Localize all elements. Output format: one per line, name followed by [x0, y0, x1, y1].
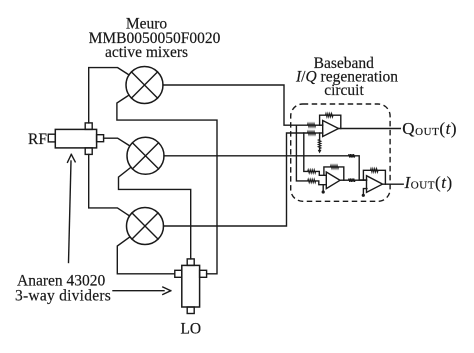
svg-text:RF: RF	[28, 131, 47, 148]
ground arrow under U3	[362, 194, 365, 197]
wire RF divider top to mixer M1	[89, 68, 129, 123]
wire mixer M1 LO input to LO divider right port	[117, 95, 217, 274]
resistor R4 (row4)	[308, 170, 316, 173]
wire row5 jog into U2	[316, 181, 327, 185]
wire row2 resistor to U1 input	[316, 132, 323, 134]
annotation arrow to RF divider	[69, 161, 72, 263]
RF divider bottom port tab	[85, 148, 92, 155]
LO divider bottom port tab	[187, 307, 194, 314]
mixer M2 circle	[127, 137, 164, 174]
mixer M1 circle	[126, 67, 163, 104]
mixer M3 X multiplier cross	[132, 213, 158, 239]
svg-text:active mixers: active mixers	[105, 44, 188, 61]
wire mixer M2 LO input to LO divider top port	[119, 167, 191, 259]
ground arrow under U2	[322, 190, 325, 193]
op-amp U2 (I channel first stage)	[326, 172, 340, 189]
resistor RF2 (U2 feedback)	[331, 165, 339, 168]
LO 3-way divider body	[182, 265, 200, 307]
wire U3 feedback loop	[363, 170, 385, 184]
wire row3 drop to U3 input	[355, 156, 367, 180]
wire mixer M3 LO input to LO divider left port	[117, 237, 175, 274]
svg-text:LO: LO	[180, 320, 201, 337]
wire R6 to U3 input	[355, 179, 367, 181]
resistor R1 (row1 input to U1)	[308, 124, 316, 127]
resistor R5 (row5)	[308, 179, 316, 182]
mixer M1 X multiplier cross	[131, 72, 157, 98]
LO divider right port tab	[200, 270, 207, 277]
wire vertical node B (row2 down to row4)	[304, 133, 308, 171]
wire row4 jog into U2	[316, 171, 327, 175]
resistor R7 on mixer M2 line	[349, 154, 355, 157]
resistor R2 (row2 input to U1)	[308, 131, 316, 134]
wire row1 resistor to U1 input	[316, 124, 323, 126]
op-amp U1 (Q channel)	[323, 121, 339, 137]
wire RF divider bottom to mixer M3	[89, 154, 130, 216]
wire U2 feedback loop	[324, 167, 344, 180]
mixer M3 circle	[127, 208, 164, 245]
LO divider left port tab	[175, 270, 182, 277]
wire RG1 to ground arrow	[319, 149, 321, 151]
wire mixer M3 output to baseband row2	[164, 133, 308, 226]
wire vertical node A (row1 down to row5)	[296, 125, 307, 181]
wire U2 ground stub	[322, 185, 324, 191]
ground arrow under U1	[318, 150, 322, 154]
wire U1 output (Q)	[339, 128, 401, 130]
resistor R6 (U2 output to U3)	[349, 179, 356, 182]
wire U3 ground stub	[363, 189, 367, 194]
wire mixer M2 output row3	[164, 155, 349, 157]
wire U2 output	[340, 179, 349, 181]
wire U3 output (I)	[383, 183, 404, 185]
wire RF divider right to mixer M2	[104, 138, 130, 146]
wire U1 feedback loop	[320, 115, 341, 128]
wire U1 lower input to ground resistor	[319, 133, 321, 140]
svg-text:circuit: circuit	[324, 82, 364, 99]
RF divider left port tab	[48, 134, 55, 142]
wire mixer M1 output to baseband row1	[163, 85, 308, 125]
RF divider right port tab	[97, 135, 104, 142]
RF 3-way divider body	[55, 129, 96, 148]
resistor RF1 (U1 feedback)	[326, 114, 334, 117]
svg-text:3-way dividers: 3-way dividers	[15, 288, 111, 305]
mixer M2 X multiplier cross	[132, 143, 158, 169]
RF divider top port tab	[85, 123, 92, 129]
resistor RG1 (U1 to ground)	[318, 140, 321, 149]
op-amp U3 (I channel output stage)	[367, 176, 383, 193]
LO divider top port tab	[187, 259, 194, 266]
baseband I/Q regeneration dashed box	[291, 104, 390, 201]
resistor RF3 (U3 feedback)	[371, 169, 379, 172]
annotation arrow to LO divider	[113, 290, 164, 292]
